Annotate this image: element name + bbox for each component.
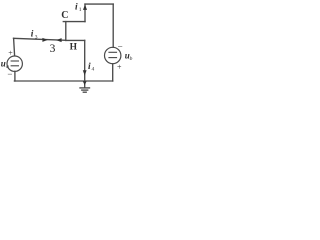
svg-text:i: i — [31, 29, 34, 39]
svg-text:−: − — [7, 69, 12, 79]
svg-text:H: H — [70, 42, 78, 52]
svg-text:1: 1 — [79, 7, 82, 13]
svg-text:b: b — [130, 56, 133, 62]
svg-text:+: + — [8, 48, 13, 57]
svg-text:C: C — [61, 10, 68, 21]
svg-text:4: 4 — [92, 67, 95, 73]
svg-text:3: 3 — [50, 43, 56, 55]
svg-text:−: − — [118, 41, 123, 51]
svg-text:u: u — [1, 58, 6, 68]
svg-text:+: + — [117, 63, 122, 72]
svg-text:i: i — [75, 2, 78, 12]
svg-text:3: 3 — [35, 34, 38, 40]
